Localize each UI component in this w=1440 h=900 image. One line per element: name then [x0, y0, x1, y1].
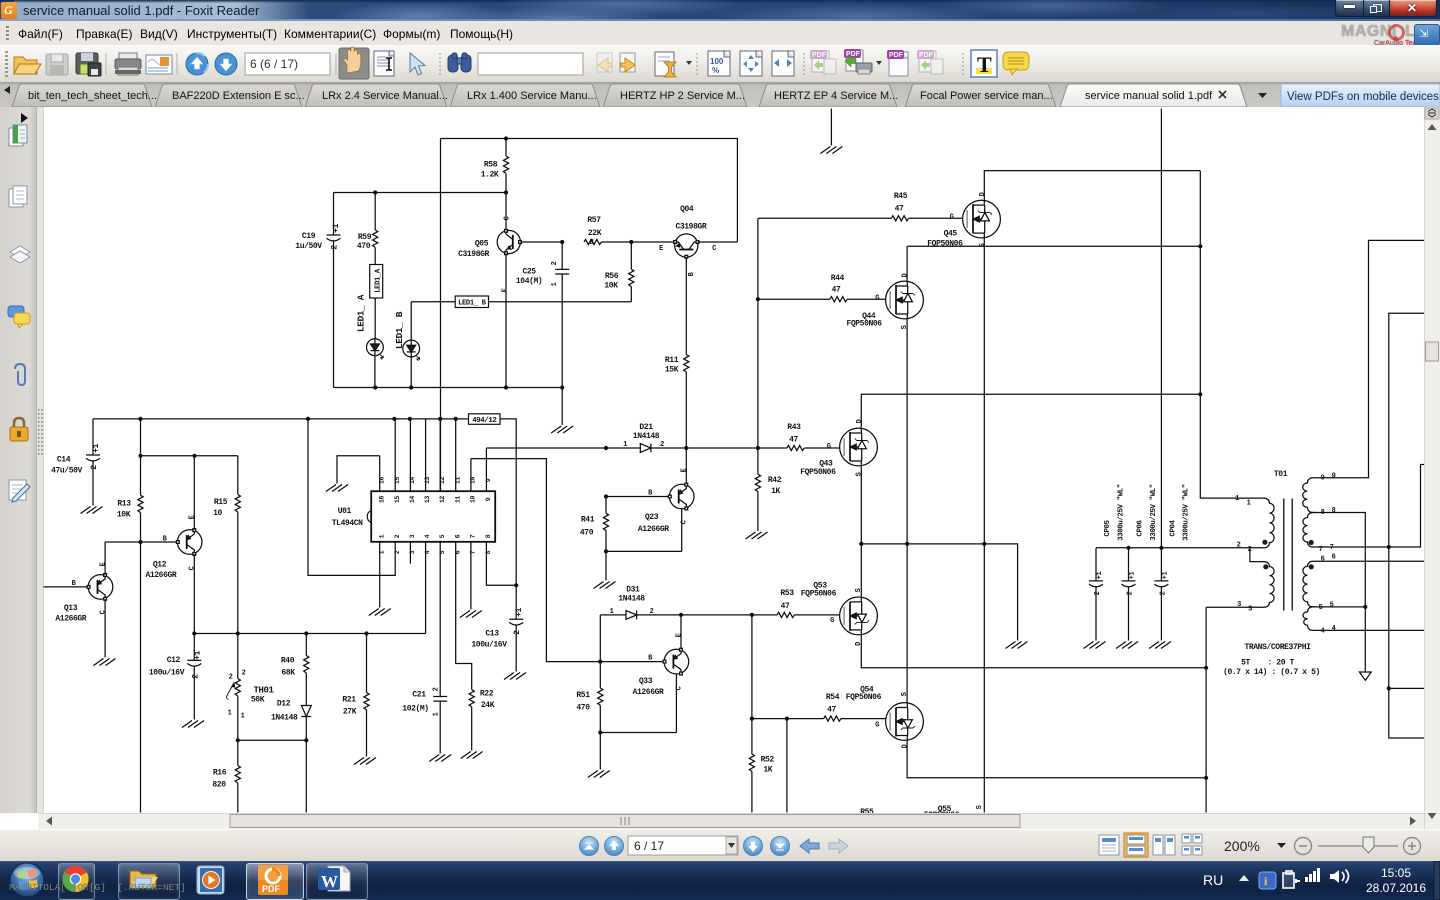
svg-text:FQP50N06: FQP50N06 — [801, 590, 837, 599]
ground pin7 — [460, 611, 482, 618]
transistor Q33 — [598, 615, 689, 735]
svg-text:3: 3 — [1248, 606, 1252, 614]
svg-text:A1266GR: A1266GR — [55, 615, 86, 624]
wire pin9 riser — [1317, 240, 1425, 477]
wire LED bottom rail y387 — [334, 385, 565, 389]
pages icon — [9, 186, 27, 207]
svg-text:1K: 1K — [771, 487, 780, 496]
wire node y633 — [192, 631, 425, 635]
LED LED1_B — [403, 302, 420, 388]
ground C21 — [429, 755, 451, 762]
magnitola watermark (menu row right) — [1341, 23, 1397, 41]
svg-text:9: 9 — [1332, 473, 1336, 481]
explorer folder — [130, 871, 158, 888]
svg-text:1N4148: 1N4148 — [633, 432, 660, 441]
svg-text:R56: R56 — [605, 272, 619, 281]
toolbar — [0, 45, 1440, 83]
transistor Q53 (flipped) — [801, 582, 878, 646]
svg-text:10: 10 — [470, 477, 477, 484]
wire right loop x1199.8 — [1200, 171, 1241, 499]
svg-text:R16: R16 — [213, 769, 227, 778]
svg-text:D12: D12 — [277, 700, 291, 709]
forward (disabled) — [829, 839, 848, 853]
svg-text:C14: C14 — [57, 456, 71, 465]
svg-text:A1266GR: A1266GR — [633, 688, 664, 697]
wire source bus y543.4 — [859, 542, 1017, 641]
svg-text:1.2K: 1.2K — [481, 171, 499, 180]
svg-text:470: 470 — [576, 704, 590, 713]
svg-text:Q23: Q23 — [645, 513, 659, 522]
svg-text:1: 1 — [378, 534, 385, 538]
next page — [744, 837, 763, 856]
ground C14 — [81, 507, 103, 514]
LED LED1_A — [367, 298, 384, 388]
node box 494/12 — [469, 414, 501, 425]
svg-text:T: T — [977, 52, 992, 77]
svg-text:C25: C25 — [522, 268, 536, 277]
fit page — [740, 51, 762, 76]
capacitor C13 — [471, 585, 524, 671]
wire pin1 to ground — [379, 542, 381, 608]
svg-text:CP05: CP05 — [1104, 519, 1112, 536]
svg-text:G: G — [830, 617, 834, 625]
svg-text:W: W — [321, 872, 338, 891]
ground top (x831) — [820, 109, 842, 154]
transistor Q13 — [44, 542, 113, 658]
svg-text:14: 14 — [409, 477, 416, 484]
svg-text:C13: C13 — [485, 630, 499, 639]
resistor R56 — [604, 240, 634, 302]
svg-text:47: 47 — [789, 436, 798, 445]
menu bar — [0, 21, 1440, 45]
wire right bus x1388.3 — [1387, 313, 1425, 738]
svg-text:7: 7 — [1330, 544, 1334, 552]
view mode: single — [1099, 835, 1119, 855]
page field — [628, 836, 738, 855]
diode D21 — [606, 423, 664, 452]
svg-text:S: S — [901, 325, 909, 329]
wire pin8 to C13 node — [486, 542, 518, 588]
svg-text:3300u/25V "WL": 3300u/25V "WL" — [1150, 484, 1158, 541]
svg-text:HERTZ EP 4 Service M...: HERTZ EP 4 Service M... — [774, 90, 898, 102]
transformer T01 core — [1284, 499, 1292, 611]
svg-text:(0.7 x 14) : (0.7 x 5): (0.7 x 14) : (0.7 x 5) — [1223, 668, 1320, 677]
svg-text:27K: 27K — [343, 708, 357, 717]
ground CP06 — [1116, 642, 1138, 649]
page down circle — [215, 53, 237, 75]
svg-text:D21: D21 — [639, 423, 653, 432]
svg-text:10: 10 — [213, 509, 222, 518]
resistor R21 — [342, 634, 369, 757]
svg-text:Q12: Q12 — [153, 561, 167, 570]
svg-text:R40: R40 — [281, 657, 295, 666]
svg-text:820: 820 — [212, 781, 226, 790]
open folder — [14, 57, 41, 74]
wire Q43 source drop — [860, 466, 862, 544]
svg-text:+1: +1 — [1162, 572, 1170, 580]
wire gate rail x757 (R45/R44/D21) — [756, 218, 760, 448]
wire pin8 drop to V- — [1317, 513, 1368, 672]
ground C13 — [504, 673, 526, 680]
ground R51 — [588, 771, 610, 778]
svg-text:6: 6 — [1321, 556, 1325, 564]
svg-text:R44: R44 — [831, 274, 845, 283]
svg-text:RU: RU — [1203, 872, 1223, 888]
svg-text:R42: R42 — [768, 476, 782, 485]
resistor R13 — [117, 419, 143, 813]
ground Q13 — [94, 659, 116, 666]
svg-text:CP06: CP06 — [1137, 519, 1145, 536]
taskbar — [0, 861, 1440, 900]
svg-text:1N4148: 1N4148 — [618, 595, 645, 604]
ground CP04 — [1149, 642, 1171, 649]
svg-text:1: 1 — [610, 608, 614, 616]
attachment icon — [15, 364, 25, 385]
print preview card — [146, 55, 172, 74]
resistor R51 — [576, 662, 603, 770]
svg-text:1: 1 — [228, 710, 232, 718]
wire Q53 drain run y667.3 — [861, 635, 1208, 670]
svg-text:4: 4 — [424, 534, 431, 538]
transistor Q45 — [927, 192, 1000, 248]
svg-text:R13: R13 — [117, 500, 131, 509]
pdf convert (disabled) — [810, 50, 836, 74]
wire Q45 source net y245.8 — [907, 244, 1202, 248]
svg-text:6: 6 — [454, 534, 461, 538]
window title bar — [0, 0, 1440, 21]
svg-text:R43: R43 — [787, 423, 801, 432]
svg-text:3300u/25V "WL": 3300u/25V "WL" — [1118, 484, 1126, 541]
capacitor C25 — [516, 240, 569, 388]
wire Q45 drain loop — [984, 171, 1200, 201]
svg-text:9: 9 — [485, 478, 492, 482]
svg-text:22K: 22K — [588, 229, 602, 238]
bookmarks icon — [9, 125, 27, 146]
svg-text:16: 16 — [378, 477, 385, 484]
svg-text:9: 9 — [1321, 475, 1325, 483]
transistor Q54 (flipped) — [846, 686, 924, 749]
svg-text:+1: +1 — [332, 224, 341, 233]
svg-text:R58: R58 — [484, 161, 498, 170]
svg-text:24K: 24K — [481, 701, 495, 710]
svg-text:Q13: Q13 — [64, 604, 78, 613]
svg-text:8: 8 — [485, 534, 492, 538]
svg-text:2: 2 — [242, 670, 246, 678]
svg-text:C3198GR: C3198GR — [458, 250, 489, 259]
svg-text:1: 1 — [433, 712, 441, 716]
svg-text:47u/50V: 47u/50V — [51, 467, 82, 476]
svg-text:15: 15 — [394, 496, 401, 503]
wire R55 feed x786.4 — [786, 719, 788, 813]
svg-text:S: S — [901, 692, 909, 696]
ground R41 — [594, 582, 616, 589]
save (disabled) — [46, 54, 68, 75]
prev view (disabled) — [597, 53, 612, 72]
svg-text:5: 5 — [1319, 604, 1323, 612]
back — [800, 839, 819, 853]
svg-text:2: 2 — [1127, 591, 1135, 595]
resistor R57 — [584, 216, 602, 245]
tab bar — [0, 82, 1440, 107]
prev page — [605, 837, 624, 856]
svg-text:View PDFs on mobile devices: View PDFs on mobile devices — [1287, 91, 1439, 103]
power symbol V- triangle — [1359, 672, 1371, 680]
svg-text:A1266GR: A1266GR — [145, 571, 176, 580]
node label box LED1_A — [370, 265, 383, 299]
svg-text:11: 11 — [454, 496, 461, 503]
svg-text:1: 1 — [1247, 500, 1251, 508]
wire R45 gate run y217.8 — [758, 217, 963, 219]
wire top rail y192 — [334, 190, 509, 194]
svg-text:200%: 200% — [1224, 838, 1260, 854]
svg-text:+1: +1 — [1096, 572, 1104, 580]
svg-text:TH01: TH01 — [253, 686, 274, 696]
svg-text:E: E — [189, 515, 197, 519]
wire Q43 drain run y393.8 — [861, 392, 1202, 428]
svg-text:R57: R57 — [587, 216, 601, 225]
svg-text:R52: R52 — [761, 755, 775, 764]
svg-text:C3198GR: C3198GR — [675, 223, 706, 232]
svg-text:C: C — [504, 216, 512, 220]
svg-text:6: 6 — [1332, 554, 1336, 562]
wire pin2 loop to VCC bus — [308, 419, 395, 576]
svg-text:+1: +1 — [194, 651, 203, 660]
svg-text:R53: R53 — [780, 589, 794, 598]
svg-text:1u/50V: 1u/50V — [295, 242, 322, 251]
wire left rail x333 with C19 gap — [333, 193, 335, 388]
svg-text:14: 14 — [409, 496, 416, 503]
wire Q44 source drop — [906, 319, 908, 544]
svg-text:C: C — [681, 520, 689, 524]
svg-text:PDF: PDF — [846, 51, 861, 58]
page number field — [245, 53, 330, 75]
svg-text:R54: R54 — [826, 693, 840, 702]
svg-text:Q05: Q05 — [475, 240, 489, 249]
svg-text:3: 3 — [409, 534, 416, 538]
wire pin10 net to Q33 base — [471, 459, 603, 664]
ground pin1 — [369, 609, 391, 616]
svg-text:2: 2 — [433, 687, 441, 691]
wire pin7 run — [1317, 465, 1425, 550]
typewriter T — [971, 50, 997, 77]
svg-text:68K: 68K — [281, 669, 295, 678]
svg-text:LRx 1.400 Service Manu...: LRx 1.400 Service Manu... — [467, 90, 597, 102]
security lock icon — [10, 418, 28, 441]
svg-text:FQP50N06: FQP50N06 — [846, 693, 882, 702]
IC pin numbers top — [378, 477, 492, 555]
svg-text:5: 5 — [1330, 602, 1334, 610]
wire 494/12 net to pin8/C13 — [500, 419, 516, 585]
view mode: continuous (active) — [1124, 833, 1148, 857]
svg-text:47: 47 — [832, 286, 841, 295]
capacitor C21 — [402, 687, 447, 753]
svg-text:PDF: PDF — [889, 52, 904, 59]
capacitor C14 — [51, 419, 101, 506]
ground R22 — [461, 752, 483, 759]
svg-text:2: 2 — [192, 674, 201, 679]
wire Q45 source drop x983.8 — [983, 238, 985, 544]
wire D31 left rail — [599, 615, 601, 662]
bottom nav bar — [0, 829, 1440, 862]
transistor Q04 — [602, 205, 738, 355]
svg-text:2: 2 — [1160, 591, 1168, 595]
wire Q54 drain run y777.3 — [907, 740, 1208, 780]
svg-text:Focal Power service man...: Focal Power service man... — [920, 90, 1053, 102]
svg-text:C: C — [676, 686, 684, 690]
svg-text:R51: R51 — [576, 691, 590, 700]
svg-text:LED1_A: LED1_A — [375, 268, 383, 293]
svg-text:15K: 15K — [665, 366, 679, 375]
ground CP05 — [1084, 642, 1106, 649]
svg-text:1: 1 — [241, 713, 245, 721]
node LED1_B rotated label — [394, 311, 405, 349]
start orb — [10, 863, 44, 897]
svg-text:PDF: PDF — [812, 52, 827, 59]
svg-text:47: 47 — [781, 602, 790, 611]
svg-text:13: 13 — [424, 496, 431, 503]
svg-text:494/12: 494/12 — [472, 417, 496, 425]
arrow cursor — [410, 53, 425, 75]
svg-text:Q33: Q33 — [639, 677, 653, 686]
svg-text:R21: R21 — [342, 696, 356, 705]
svg-text:LRx 2.4 Service Manual...: LRx 2.4 Service Manual... — [322, 90, 448, 102]
wire V+ vertical rail x440 (top frame to pin12) — [438, 139, 442, 492]
wire pin3 stub — [409, 542, 411, 564]
svg-text:100u/16V: 100u/16V — [149, 669, 185, 678]
zoom tool — [655, 52, 676, 77]
svg-text:T01: T01 — [1274, 470, 1288, 479]
ground pin16 — [326, 485, 348, 492]
node label box LED1_B — [455, 296, 488, 308]
resistor R15 — [213, 456, 240, 634]
svg-text:R11: R11 — [665, 356, 679, 365]
save as — [76, 53, 101, 76]
wire Q54 source riser — [906, 544, 908, 703]
svg-text:PDF: PDF — [919, 52, 934, 59]
chrome — [62, 866, 88, 892]
ground LED block (x561) — [551, 388, 573, 434]
svg-text:C: C — [189, 566, 197, 570]
svg-text:10: 10 — [470, 496, 477, 503]
svg-text:47: 47 — [827, 706, 836, 715]
foxit — [258, 865, 288, 895]
search field — [478, 53, 583, 75]
svg-text:bit_ten_tech_sheet_tech...: bit_ten_tech_sheet_tech... — [28, 90, 157, 102]
svg-text:LED1_ B: LED1_ B — [394, 311, 405, 349]
binoculars — [448, 53, 471, 72]
svg-text:R41: R41 — [581, 516, 595, 525]
svg-text:Q04: Q04 — [680, 205, 694, 214]
svg-text:100u/16V: 100u/16V — [471, 641, 507, 650]
svg-text:D: D — [902, 273, 910, 277]
svg-text:6 / 17: 6 / 17 — [634, 839, 664, 853]
printer — [115, 53, 141, 75]
svg-text:47: 47 — [895, 205, 904, 214]
page up circle — [186, 53, 208, 75]
resistor R41 — [580, 497, 609, 581]
svg-text:4: 4 — [1332, 625, 1336, 633]
resistor R52 — [749, 615, 774, 813]
wire pin9 bus y447.5 — [486, 446, 839, 450]
ground R21 — [354, 758, 376, 765]
svg-text:12: 12 — [439, 496, 446, 503]
svg-text:102(M): 102(M) — [402, 705, 428, 714]
svg-text:+1: +1 — [515, 608, 524, 617]
wire pin4 to node y633 — [425, 542, 427, 634]
svg-text:2: 2 — [229, 674, 233, 682]
wmp — [197, 866, 224, 894]
wire pin6 run — [1317, 560, 1425, 562]
svg-text:BAF220D Extension E sc...: BAF220D Extension E sc... — [172, 90, 305, 102]
svg-text:10K: 10K — [117, 511, 131, 520]
svg-text:1K: 1K — [763, 766, 772, 775]
svg-text:6 (6 / 17): 6 (6 / 17) — [250, 57, 298, 71]
svg-text:R45: R45 — [894, 192, 908, 201]
resistor R53 — [777, 589, 794, 618]
IC pin stubs top — [380, 419, 487, 491]
note balloon — [1003, 52, 1029, 75]
thermistor TH01 — [227, 634, 275, 741]
wire R44 gate run y298.7 — [758, 298, 886, 300]
svg-text:1N4148: 1N4148 — [271, 714, 298, 723]
wire emitter rail y455 — [141, 454, 238, 458]
transistor Q44 — [846, 273, 923, 329]
svg-text:D: D — [979, 192, 987, 196]
svg-text:2: 2 — [551, 261, 559, 265]
svg-text:9: 9 — [485, 497, 492, 501]
svg-text:2: 2 — [1237, 542, 1241, 550]
svg-text:470: 470 — [357, 242, 371, 251]
svg-text:7: 7 — [470, 534, 477, 538]
svg-text:2: 2 — [513, 630, 522, 635]
op-amp U1 IC body TL494CN — [332, 491, 495, 542]
pdf page — [887, 50, 908, 76]
svg-text:100: 100 — [710, 57, 724, 66]
svg-text:2: 2 — [1248, 546, 1252, 554]
wire Q53 source riser — [860, 544, 862, 597]
wire long rail x1160.9 — [1160, 109, 1162, 548]
svg-text:2: 2 — [331, 245, 340, 250]
pdf to printer — [844, 49, 872, 74]
wire out y687.9 — [1389, 687, 1425, 689]
wire TH01/D12 node y739.8 — [236, 738, 309, 812]
svg-text:16: 16 — [378, 496, 385, 503]
svg-text:PDF: PDF — [262, 884, 281, 894]
capacitor CP06 — [1122, 484, 1159, 640]
svg-text:D: D — [902, 744, 910, 748]
wire pin6 jog to R22 — [456, 542, 472, 690]
node LED1_A rotated label — [356, 294, 367, 332]
transformer T01 secondary windings — [1303, 473, 1336, 636]
first page — [580, 837, 599, 856]
svg-text:C21: C21 — [412, 691, 426, 700]
svg-text:LED1_ A: LED1_ A — [356, 294, 367, 332]
pdf copy (disabled) — [917, 50, 943, 74]
wire R54 gate run y718.1 — [752, 717, 886, 721]
svg-text:1: 1 — [1235, 495, 1239, 503]
svg-text:E: E — [676, 633, 684, 637]
scrollbars — [1424, 107, 1440, 829]
svg-text:G: G — [827, 443, 831, 451]
svg-text:+1: +1 — [1129, 572, 1137, 580]
resistor R58 — [481, 139, 509, 193]
wire VCC bus y418 — [93, 417, 469, 421]
svg-text:R15: R15 — [214, 498, 228, 507]
wire pin4 run — [1317, 629, 1425, 631]
svg-text:3300u/25V "WL": 3300u/25V "WL" — [1183, 484, 1191, 541]
hand tool (pressed) — [339, 47, 369, 79]
svg-text:HERTZ HP 2 Service M...: HERTZ HP 2 Service M... — [620, 90, 745, 102]
